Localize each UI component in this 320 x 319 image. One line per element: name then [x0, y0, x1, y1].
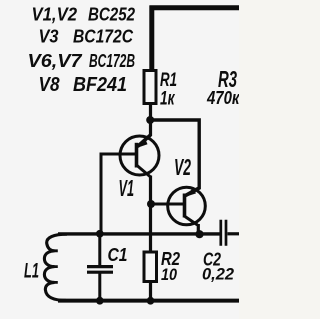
wire: node down through crossing to R2 [149, 204, 152, 252]
capacitor C1 top lead [98, 234, 101, 265]
wire: V2 emitter down to tank wire [197, 224, 200, 234]
transistor V1 circle [120, 136, 159, 175]
svg-text:L1: L1 [24, 260, 39, 283]
svg-text:BF241: BF241 [73, 73, 127, 96]
node: junction V1 collector / V2 base / R2 [147, 200, 155, 208]
wire: V1 collector down to V2 base node [149, 176, 152, 205]
transistor V1 emitter diagonal [138, 135, 151, 147]
resistor R1 [144, 71, 156, 104]
transistor V2 base bar [183, 194, 187, 218]
parts list line 1: V1,V2 BC252 [32, 5, 136, 25]
svg-text:1к: 1к [160, 89, 175, 110]
resistor R2 [144, 252, 157, 282]
wire: corner from top rail down to R1 [149, 6, 154, 70]
svg-text:V1: V1 [119, 175, 135, 201]
transistor V2 collector diagonal [186, 188, 201, 196]
wire: V1 base left and down to tank node [101, 154, 135, 234]
svg-text:C1: C1 [108, 244, 128, 265]
svg-text:V6,V7: V6,V7 [28, 51, 83, 71]
svg-text:BC172C: BC172C [73, 26, 134, 46]
inductor L1 winding cusp ticks [54, 251, 58, 283]
wire: bottom ground rail [58, 299, 239, 303]
node: junction bottom rail / C1 [96, 297, 104, 305]
wire: V2 base lead [151, 203, 184, 206]
svg-text:V2: V2 [174, 154, 191, 180]
node: junction tank / V2 emitter [195, 230, 203, 238]
svg-text:BC252: BC252 [88, 5, 135, 25]
capacitor C1 bottom lead [98, 274, 101, 302]
svg-text:V3: V3 [39, 26, 59, 46]
svg-text:BC172B: BC172B [89, 51, 135, 71]
transistor V1 base bar [135, 143, 139, 168]
transistor V2 circle [168, 187, 206, 225]
wire: top supply rail [150, 5, 240, 10]
parts list line 2: V3 BC172C [39, 26, 134, 46]
wire: node to V2 collector (right then down) [151, 120, 200, 189]
inductor L1 [44, 234, 67, 300]
capacitor C2 plates [221, 220, 226, 246]
parts list line 3: V6,V7 BC172B [28, 51, 136, 71]
transistor V1 base lead [101, 153, 135, 156]
node: junction bottom rail / R2 [147, 297, 155, 305]
wire: node down to V1 emitter [149, 120, 152, 136]
wire: C2 to right edge [228, 232, 240, 235]
svg-text:0,22: 0,22 [202, 265, 235, 284]
parts list line 4: V8 BF241 [39, 73, 128, 96]
transistor V2 emitter diagonal [185, 217, 198, 226]
wire: tank circuit top rail [58, 232, 220, 235]
node: junction tank / C1 / V1 base [96, 230, 104, 238]
transistor V2 collector arrow [185, 188, 196, 197]
svg-text:470к: 470к [206, 88, 239, 108]
svg-text:V8: V8 [39, 73, 60, 96]
svg-text:V1,V2: V1,V2 [32, 5, 78, 25]
node: junction R1 / V1 emitter / V2 collector branch [146, 116, 154, 124]
transistor V1 collector diagonal [137, 166, 150, 177]
wire: R2 bottom lead [149, 282, 152, 302]
capacitor C1 plates [87, 267, 113, 273]
transistor V1 emitter arrow [137, 138, 148, 148]
svg-text:10: 10 [161, 265, 177, 284]
wire: R1 bottom lead to node [149, 104, 152, 122]
